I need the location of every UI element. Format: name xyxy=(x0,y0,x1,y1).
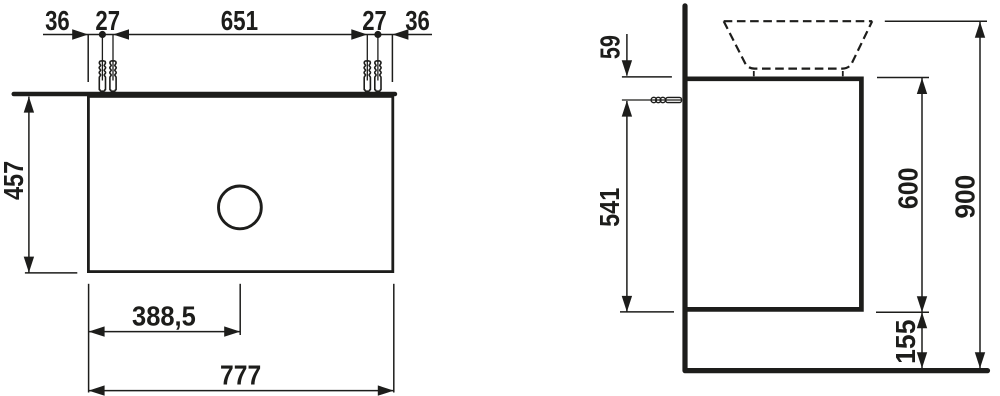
svg-text:457: 457 xyxy=(0,161,30,200)
svg-text:27: 27 xyxy=(95,6,120,37)
svg-text:59: 59 xyxy=(595,35,626,59)
svg-text:155: 155 xyxy=(889,320,921,364)
svg-text:600: 600 xyxy=(892,168,924,210)
svg-text:651: 651 xyxy=(221,6,258,37)
svg-text:541: 541 xyxy=(595,188,625,227)
svg-text:777: 777 xyxy=(220,359,261,391)
svg-text:36: 36 xyxy=(45,6,70,37)
svg-text:36: 36 xyxy=(405,6,430,37)
svg-text:388,5: 388,5 xyxy=(132,300,196,331)
svg-text:27: 27 xyxy=(362,6,387,37)
svg-text:900: 900 xyxy=(949,175,981,219)
